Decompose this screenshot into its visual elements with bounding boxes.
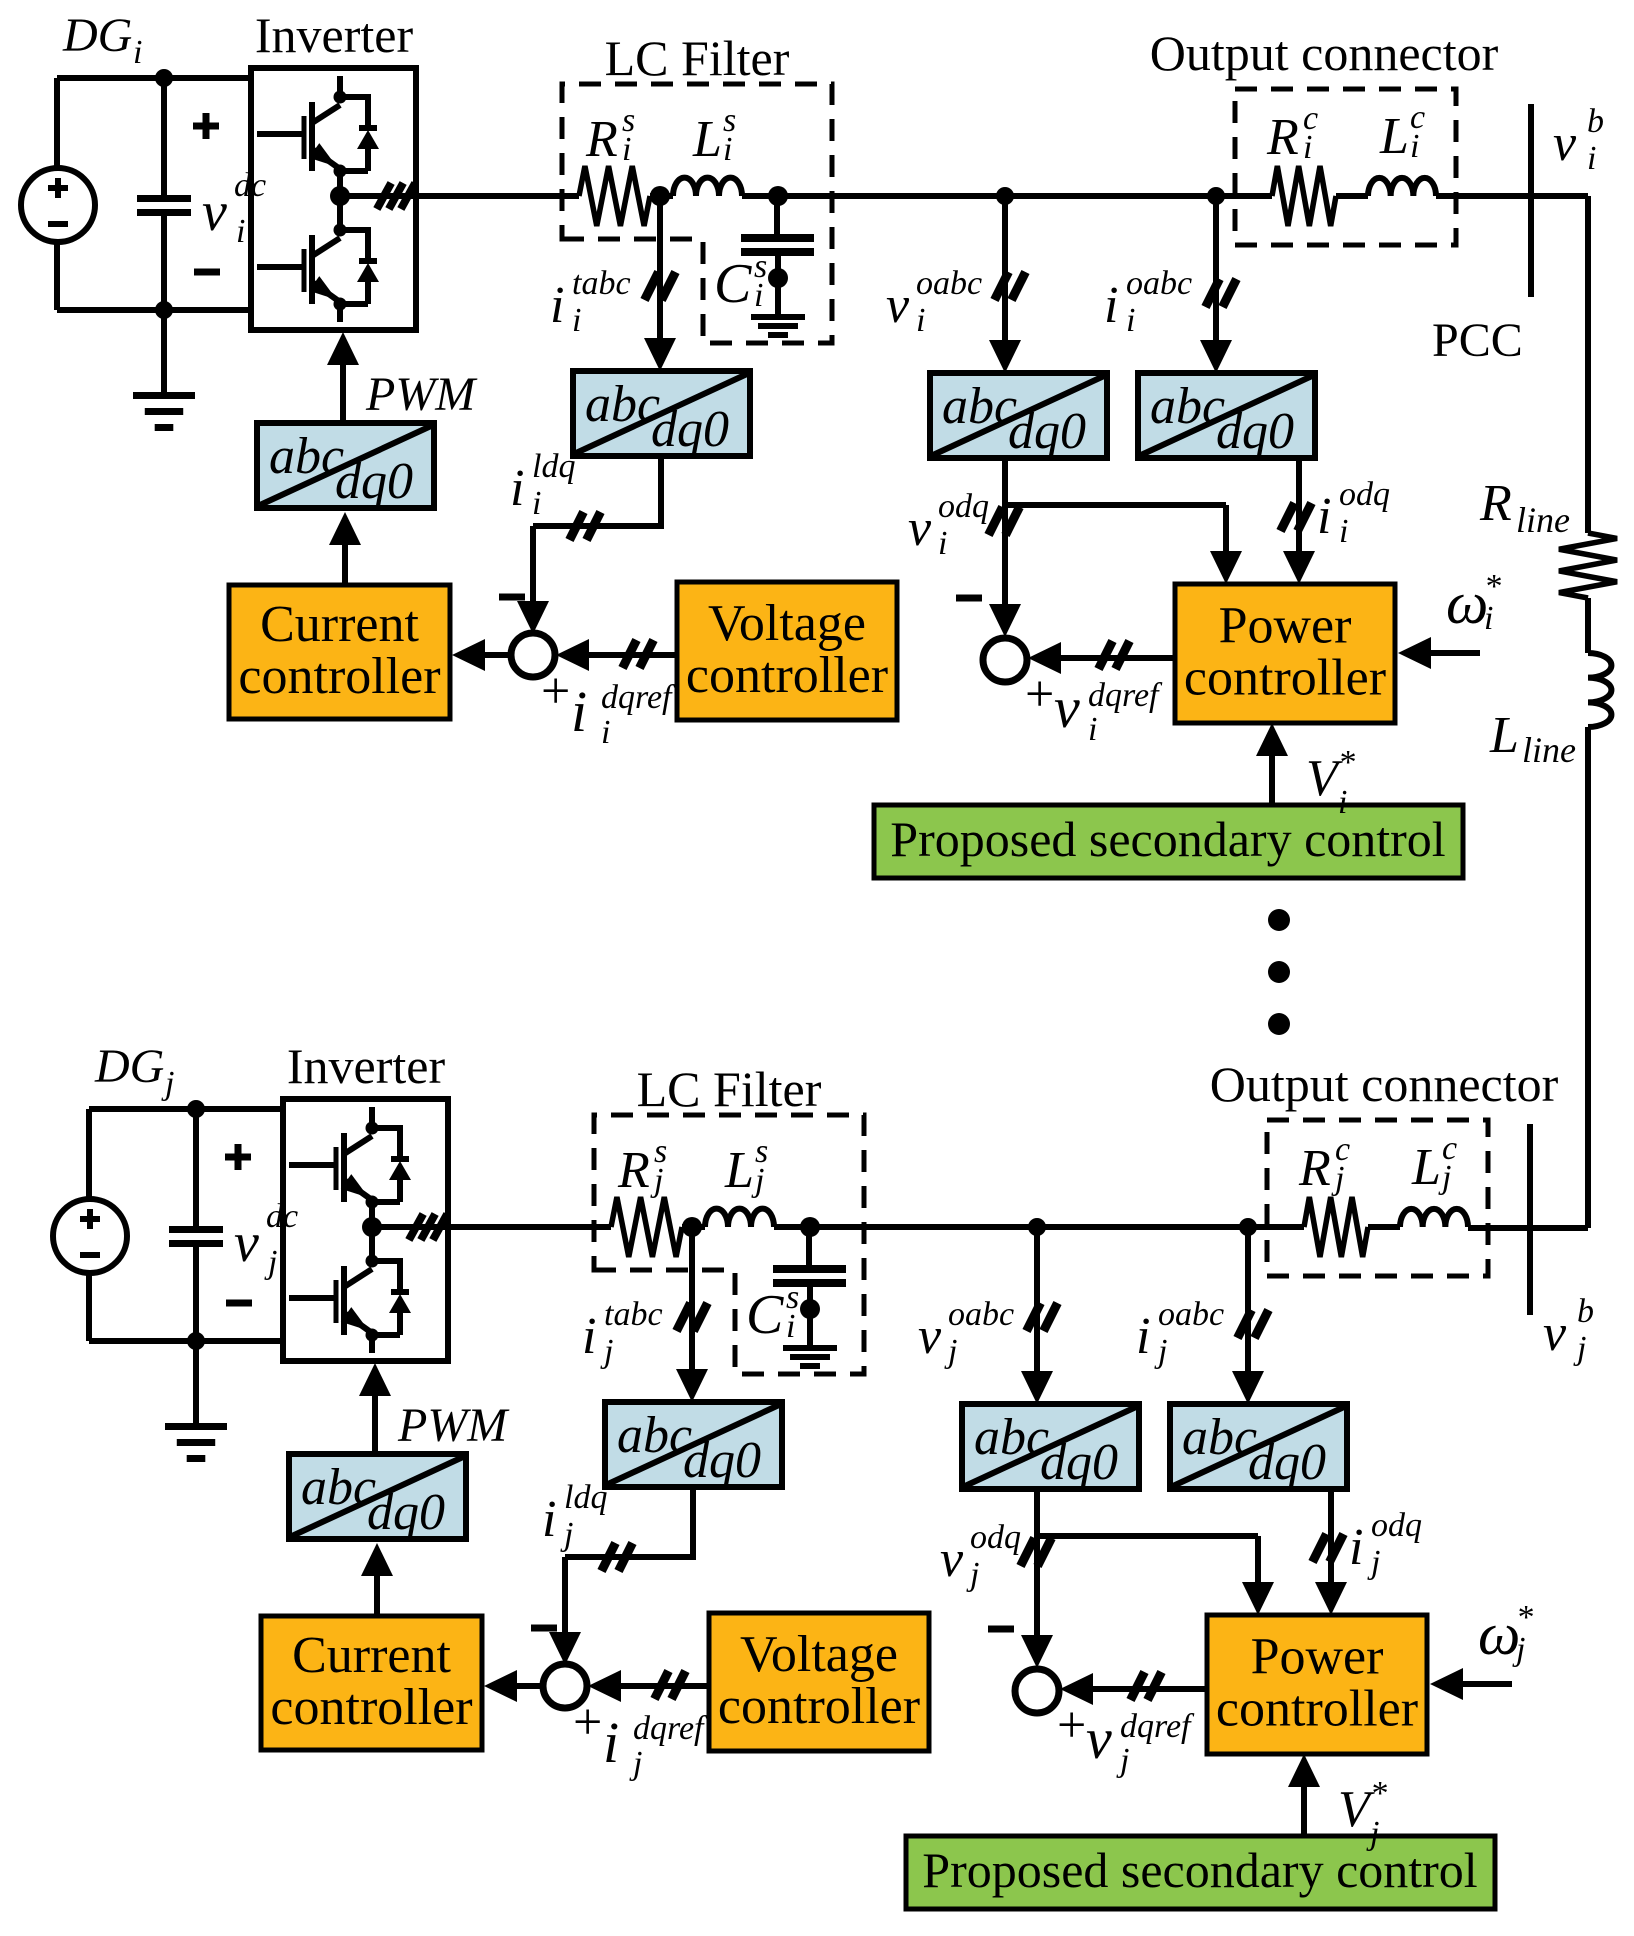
svg-text:Current: Current (260, 596, 419, 653)
svg-text:i: i (510, 460, 524, 517)
svg-text:i: i (603, 1710, 619, 1775)
svg-text:Output connector: Output connector (1210, 1056, 1559, 1112)
svg-text:Voltage: Voltage (708, 595, 866, 652)
svg-text:odq: odq (1339, 476, 1390, 513)
svg-text:R: R (1298, 1140, 1331, 1197)
svg-text:line: line (1516, 500, 1570, 540)
svg-text:v: v (1054, 675, 1080, 740)
svg-text:i: i (1136, 1308, 1150, 1365)
svg-text:+: + (1025, 666, 1054, 723)
svg-text:v: v (1553, 115, 1577, 172)
svg-text:R: R (585, 111, 618, 168)
svg-text:i: i (1104, 277, 1118, 334)
svg-text:i: i (572, 302, 581, 339)
svg-text:R: R (1266, 109, 1299, 166)
svg-text:controller: controller (1216, 1681, 1418, 1738)
svg-text:i: i (542, 1491, 556, 1548)
svg-text:odq: odq (1371, 1507, 1422, 1544)
svg-text:ldq: ldq (564, 1479, 607, 1516)
svg-text:DG: DG (62, 9, 132, 62)
svg-text:controller: controller (270, 1679, 472, 1736)
svg-text:i: i (1317, 488, 1331, 545)
svg-text:i: i (601, 714, 610, 751)
svg-text:i: i (1587, 140, 1596, 177)
svg-text:ω: ω (1446, 570, 1488, 636)
svg-text:abc: abc (269, 428, 344, 485)
svg-text:*: * (1370, 1775, 1387, 1812)
svg-text:v: v (918, 1308, 942, 1365)
svg-text:dqref: dqref (1088, 677, 1163, 714)
svg-text:oabc: oabc (1158, 1296, 1224, 1333)
svg-text:i: i (938, 525, 947, 562)
svg-text:L: L (724, 1142, 754, 1199)
svg-text:Voltage: Voltage (740, 1626, 898, 1683)
svg-text:b: b (1577, 1293, 1594, 1330)
svg-text:dq0: dq0 (335, 453, 413, 510)
svg-text:line: line (1522, 730, 1576, 770)
svg-text:abc: abc (942, 378, 1017, 435)
svg-text:dq0: dq0 (1040, 1434, 1118, 1491)
svg-text:v: v (202, 181, 227, 243)
svg-text:Inverter: Inverter (287, 1038, 446, 1094)
svg-text:L: L (1379, 108, 1409, 165)
svg-text:abc: abc (301, 1459, 376, 1516)
svg-text:oabc: oabc (948, 1296, 1014, 1333)
svg-text:dq0: dq0 (651, 401, 729, 458)
svg-text:dq0: dq0 (1216, 403, 1294, 460)
svg-text:PWM: PWM (397, 1399, 510, 1452)
svg-text:i: i (786, 1308, 795, 1345)
svg-text:i: i (550, 277, 564, 334)
svg-text:dq0: dq0 (1008, 403, 1086, 460)
svg-text:LC Filter: LC Filter (637, 1061, 822, 1117)
svg-text:i: i (1088, 711, 1097, 748)
svg-text:LC Filter: LC Filter (605, 30, 790, 86)
svg-text:i: i (532, 485, 541, 522)
svg-text:i: i (1339, 513, 1348, 550)
svg-text:i: i (1349, 1519, 1363, 1576)
svg-text:controller: controller (1184, 650, 1386, 707)
svg-text:controller: controller (686, 647, 888, 704)
svg-text:i: i (1410, 128, 1419, 165)
svg-text:v: v (1086, 1706, 1112, 1771)
svg-text:C: C (746, 1284, 784, 1346)
svg-text:i: i (1303, 129, 1312, 166)
svg-text:v: v (908, 500, 932, 557)
svg-text:ldq: ldq (532, 448, 575, 485)
svg-text:dq0: dq0 (367, 1484, 445, 1541)
svg-text:+: + (1057, 1697, 1086, 1754)
svg-text:b: b (1587, 103, 1604, 140)
svg-text:Proposed secondary control: Proposed secondary control (890, 811, 1445, 867)
svg-text:odq: odq (970, 1519, 1021, 1556)
svg-text:abc: abc (617, 1407, 692, 1464)
svg-text:i: i (236, 213, 245, 250)
svg-text:i: i (582, 1308, 596, 1365)
svg-text:L: L (1489, 707, 1519, 764)
svg-text:i: i (622, 131, 631, 168)
svg-text:v: v (886, 277, 910, 334)
svg-text:abc: abc (1182, 1409, 1257, 1466)
svg-text:R: R (1479, 475, 1512, 532)
svg-text:i: i (916, 302, 925, 339)
svg-text:v: v (940, 1531, 964, 1588)
svg-text:dq0: dq0 (683, 1432, 761, 1489)
svg-text:abc: abc (1150, 378, 1225, 435)
svg-text:Current: Current (292, 1627, 451, 1684)
svg-text:+: + (541, 663, 570, 720)
svg-text:controller: controller (718, 1678, 920, 1735)
svg-text:PCC: PCC (1432, 314, 1523, 367)
svg-text:i: i (723, 131, 732, 168)
svg-text:C: C (714, 253, 752, 315)
svg-text:abc: abc (585, 376, 660, 433)
svg-text:v: v (234, 1212, 259, 1274)
svg-text:Power: Power (1251, 1629, 1384, 1686)
svg-text:+: + (573, 1694, 602, 1751)
svg-text:dq0: dq0 (1248, 1434, 1326, 1491)
svg-text:ω: ω (1478, 1601, 1520, 1667)
svg-text:Proposed secondary control: Proposed secondary control (922, 1842, 1477, 1898)
svg-text:i: i (133, 34, 142, 71)
svg-text:Inverter: Inverter (255, 7, 414, 63)
svg-text:DG: DG (94, 1040, 164, 1093)
svg-text:tabc: tabc (604, 1296, 663, 1333)
svg-text:oabc: oabc (1126, 265, 1192, 302)
svg-text:i: i (754, 277, 763, 314)
svg-text:i: i (1126, 302, 1135, 339)
svg-text:Power: Power (1219, 598, 1352, 655)
svg-text:L: L (692, 111, 722, 168)
svg-text:abc: abc (974, 1409, 1049, 1466)
svg-text:PWM: PWM (365, 368, 478, 421)
svg-text:controller: controller (238, 648, 440, 705)
svg-text:Output connector: Output connector (1150, 25, 1499, 81)
svg-text:odq: odq (938, 488, 989, 525)
svg-text:dqref: dqref (601, 679, 676, 716)
svg-text:v: v (1543, 1305, 1567, 1362)
svg-text:oabc: oabc (916, 265, 982, 302)
svg-text:i: i (571, 679, 587, 744)
svg-text:L: L (1411, 1139, 1441, 1196)
svg-text:dqref: dqref (633, 1710, 708, 1747)
svg-text:*: * (1338, 744, 1355, 781)
svg-text:i: i (1338, 784, 1347, 821)
svg-text:dqref: dqref (1120, 1708, 1195, 1745)
svg-text:R: R (617, 1142, 650, 1199)
svg-text:i: i (1484, 600, 1493, 637)
svg-text:tabc: tabc (572, 265, 631, 302)
